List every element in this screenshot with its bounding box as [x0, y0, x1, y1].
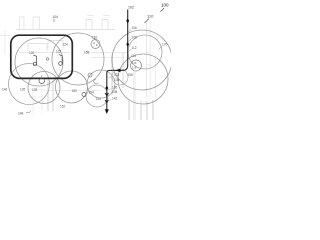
cell circle C5 bottom far-left: [9, 64, 50, 105]
bleed-through horizontal bottom: [44, 89, 100, 91]
svg-text:104: 104: [53, 15, 59, 19]
svg-text:120: 120: [29, 51, 35, 55]
svg-text:148: 148: [18, 112, 24, 116]
svg-text:106: 106: [132, 26, 138, 30]
svg-text:162: 162: [92, 36, 98, 40]
svg-text:124: 124: [63, 43, 69, 47]
chevron 1: [105, 93, 108, 96]
bleed-through left edge lines: [0, 30, 10, 55]
svg-text:156: 156: [128, 73, 134, 77]
diamond node 2: [126, 42, 129, 47]
svg-text:116: 116: [132, 61, 137, 65]
svg-text:170: 170: [162, 43, 168, 47]
bleed-through vertical pair right mid: [134, 72, 135, 120]
chevron 2: [105, 100, 108, 103]
main enclosure rounded rect: [11, 35, 73, 78]
svg-text:150: 150: [72, 89, 78, 93]
label 104 top with tick: [53, 19, 55, 22]
small circle C9: [112, 69, 128, 85]
bleed-through mid horizontals: [84, 52, 128, 54]
svg-text:132: 132: [114, 73, 120, 77]
svg-text:154: 154: [89, 91, 95, 95]
svg-text:100: 100: [161, 3, 169, 8]
svg-text:134: 134: [114, 78, 120, 82]
bleed-through faint marks above tabs: [87, 15, 109, 17]
svg-text:126: 126: [20, 88, 26, 92]
small device circle in C6: [88, 73, 92, 77]
svg-text:136: 136: [112, 85, 118, 89]
svg-text:108: 108: [132, 36, 138, 40]
bottom arrowhead: [105, 109, 109, 114]
bleed-through top comb baseline: [16, 29, 115, 31]
cell circle R3 right lower: [118, 54, 168, 104]
svg-text:146: 146: [2, 88, 8, 92]
main arrow line vertical top: [107, 10, 128, 111]
svg-text:138: 138: [112, 90, 118, 94]
small circle C8: [131, 60, 142, 71]
bleed-through tab 3: [86, 20, 92, 30]
bleed-through tab 2: [33, 17, 40, 30]
bleed-through vertical bars bottom-right: [129, 100, 154, 120]
svg-text:144: 144: [96, 97, 102, 101]
cell circle C4b bottom middle: [56, 71, 88, 103]
cell circle R1 big right: [112, 30, 172, 90]
cell circle C2: [52, 33, 104, 85]
svg-text:158: 158: [84, 51, 90, 55]
label hooks to line: [128, 30, 131, 33]
tiny device circle center of rect: [46, 58, 48, 60]
small circle C7: [91, 40, 100, 49]
antenna symbol S2: [59, 62, 63, 66]
svg-text:102: 102: [128, 6, 134, 10]
cell circle C1: [15, 38, 63, 86]
bleed-through ladder right: [146, 21, 150, 97]
antenna symbol S1: [33, 62, 37, 66]
cell circle R2 medium right: [128, 35, 162, 69]
bleed-through tab 1: [20, 17, 25, 30]
cell circle C6 lower mid-right: [87, 70, 115, 98]
svg-text:118: 118: [132, 66, 137, 70]
svg-text:142: 142: [112, 97, 118, 101]
bleed-through vertical pair middle: [111, 54, 112, 95]
svg-text:110: 110: [147, 14, 154, 19]
svg-text:112: 112: [132, 46, 137, 50]
bleed-through vertical bars bottom-left: [48, 80, 49, 111]
dots in C7: [93, 43, 94, 44]
arrowhead on horizontal pointing left: [116, 69, 121, 73]
bleed-through tab 4: [102, 20, 108, 30]
bleed-through rects inside main box: [28, 44, 47, 52]
spiral hook near C6: [94, 79, 98, 84]
cell circle C4a bottom left-middle: [28, 72, 60, 104]
diamond node 1: [126, 18, 129, 23]
svg-text:122: 122: [56, 50, 62, 54]
small circle + antenna bottom center: [39, 78, 45, 84]
cell circle C6b bottom mid-right: [86, 85, 108, 107]
svg-text:114: 114: [131, 54, 136, 58]
svg-text:152: 152: [60, 105, 66, 109]
svg-text:128: 128: [32, 88, 38, 92]
diamond node on lower vertical: [105, 86, 108, 91]
